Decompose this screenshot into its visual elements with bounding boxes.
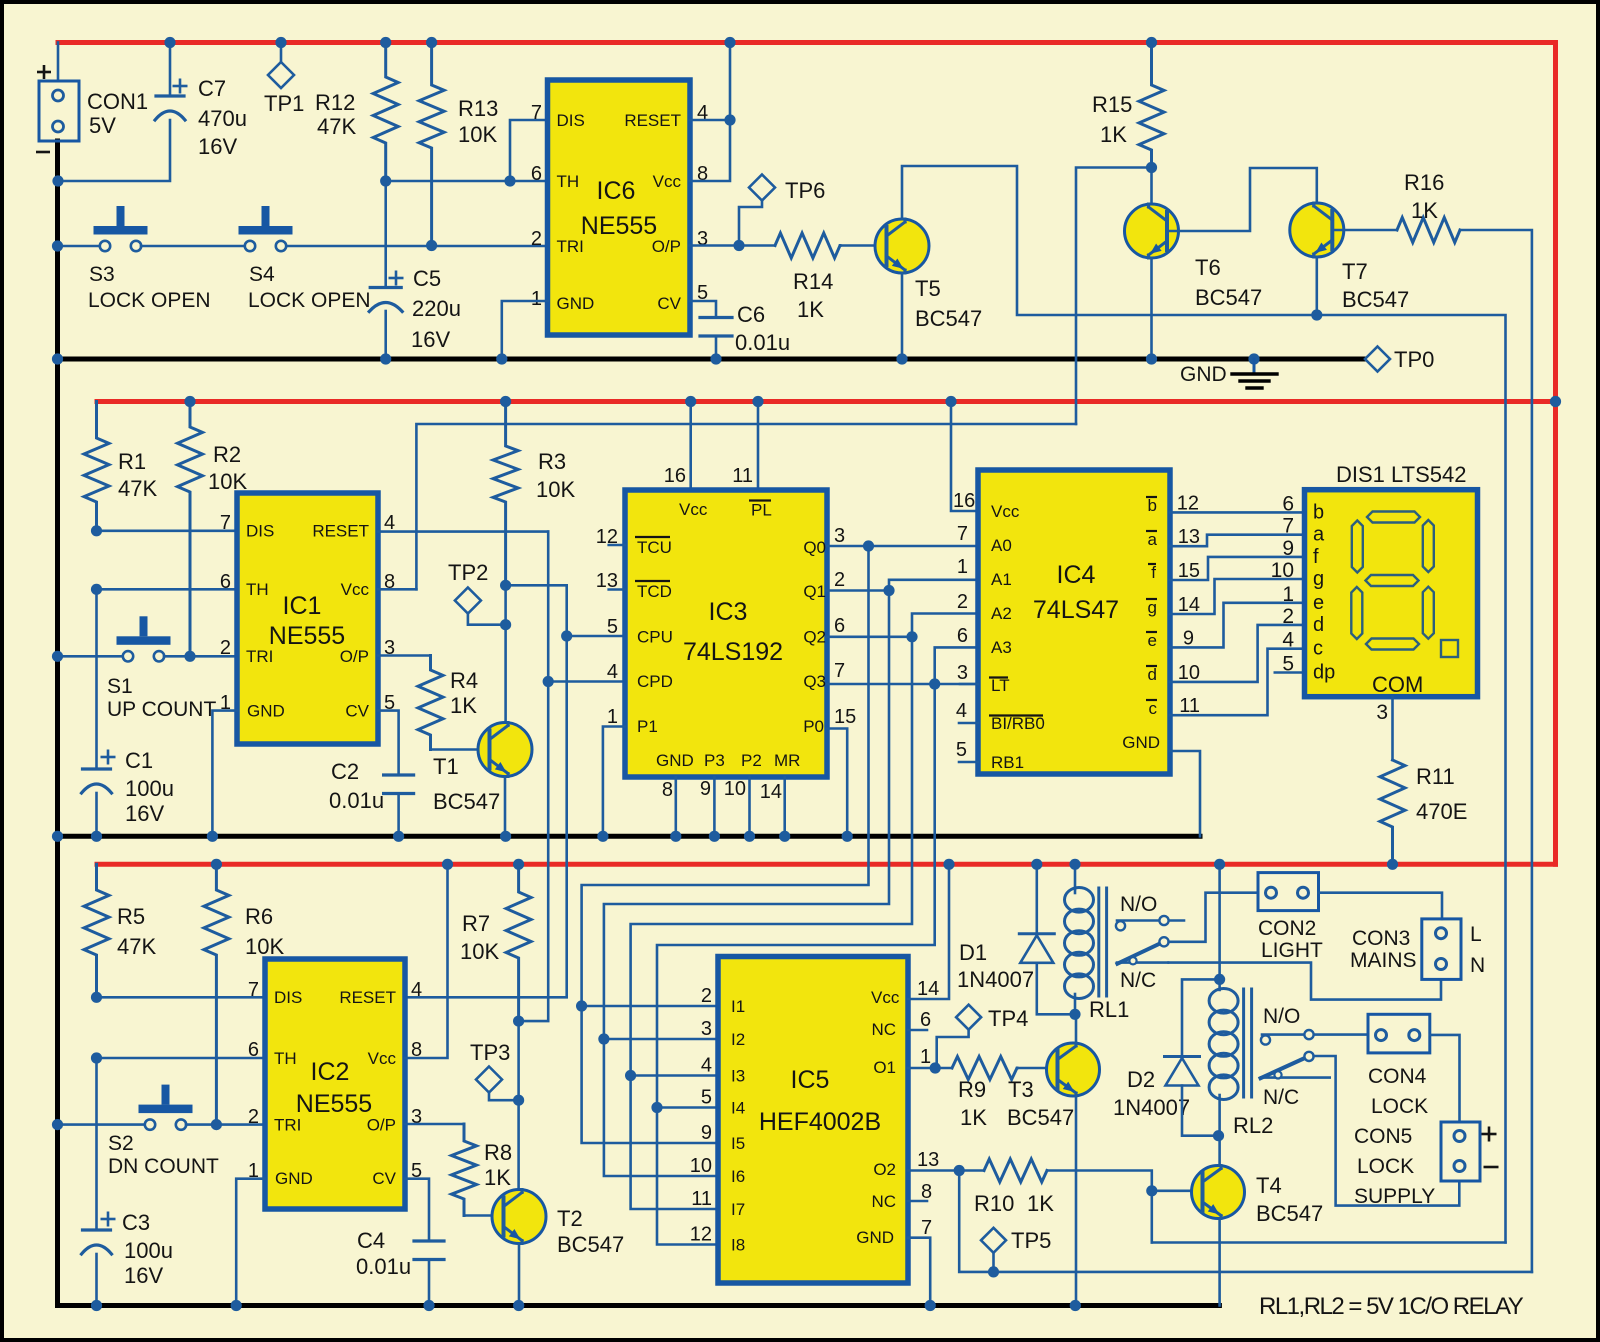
svg-text:P3: P3 (704, 751, 725, 770)
junction TP3 on T2 collector column (513, 1095, 524, 1106)
svg-text:RL2: RL2 (1233, 1113, 1273, 1138)
svg-text:DIS: DIS (246, 522, 274, 541)
resistor R2 10K (178, 402, 203, 657)
svg-text:Vcc: Vcc (871, 988, 900, 1007)
svg-text:3: 3 (834, 525, 845, 547)
svg-text:CON3: CON3 (1352, 927, 1410, 950)
svg-text:1K: 1K (450, 693, 477, 718)
svg-text:5: 5 (607, 616, 618, 638)
wire IC2 Vcc riser to bottom rail (405, 864, 448, 1058)
svg-text:CON2: CON2 (1258, 917, 1316, 940)
svg-text:BC547: BC547 (915, 306, 982, 331)
switch S4 LOCK OPEN (245, 241, 255, 251)
svg-text:1: 1 (1282, 583, 1294, 606)
svg-text:6: 6 (957, 625, 968, 647)
svg-text:9: 9 (700, 778, 711, 800)
svg-text:S4: S4 (249, 263, 275, 286)
svg-text:CPU: CPU (637, 628, 673, 647)
svg-text:T3: T3 (1008, 1077, 1034, 1102)
svg-text:C6: C6 (737, 302, 765, 327)
resistor R10 1K (984, 1159, 1047, 1182)
wire R10 to T4 base column (1047, 1171, 1152, 1243)
relay core RL2 (1242, 989, 1245, 1097)
gate IC5 HEF4002B (718, 957, 908, 1284)
wire IC3 P1 to middle ground bus (603, 727, 625, 837)
svg-text:DIS: DIS (557, 111, 585, 130)
ground bus upper (58, 357, 1367, 362)
wire I4 line (657, 1106, 718, 1109)
wire T3 emitter to bottom bus (1075, 1097, 1078, 1306)
op-amp-block IC6 NE555 (548, 80, 691, 335)
wire D1 cathode to bottom rail (1036, 864, 1039, 934)
diode D1 1N4007 (1019, 932, 1054, 935)
wire R8 to T2 base (464, 1214, 503, 1217)
resistor R7 10K (506, 864, 531, 1021)
svg-text:C1: C1 (125, 748, 153, 773)
svg-text:RL1,RL2 = 5V 1C/O RELAY: RL1,RL2 = 5V 1C/O RELAY (1259, 1293, 1524, 1320)
wire T1 collector column (504, 585, 507, 722)
wire IC5 O1 line (908, 1067, 952, 1070)
svg-text:NE555: NE555 (581, 212, 657, 240)
wire IC4 b to display (1170, 511, 1305, 514)
svg-text:A2: A2 (991, 604, 1012, 623)
wire Q2 line (827, 635, 912, 638)
diode D2 1N4007 (1165, 1055, 1200, 1058)
ground left vertical wire and bottom bus (58, 141, 1220, 1306)
resistor R9 1K (952, 1057, 1017, 1080)
svg-text:LOCK OPEN: LOCK OPEN (88, 289, 211, 312)
wire T7 base to R16 (1332, 229, 1397, 232)
capacitor C6 0.01u (700, 316, 732, 319)
svg-text:7: 7 (1282, 515, 1294, 538)
svg-text:Vcc: Vcc (653, 172, 682, 191)
svg-text:4: 4 (411, 979, 422, 1001)
svg-text:14: 14 (1178, 594, 1200, 616)
wire IC4 d to display (1170, 625, 1305, 682)
svg-text:16V: 16V (124, 1263, 163, 1288)
svg-text:GND: GND (1122, 733, 1160, 752)
svg-text:2: 2 (1282, 605, 1294, 628)
svg-text:R3: R3 (538, 449, 566, 474)
resistor R1 47K (84, 402, 109, 531)
svg-text:e: e (1148, 631, 1157, 650)
svg-text:100u: 100u (125, 776, 174, 801)
resistor R3 10K (493, 402, 518, 586)
decoder IC4 74LS47 (978, 470, 1170, 774)
svg-text:A1: A1 (991, 570, 1012, 589)
svg-text:IC5: IC5 (791, 1066, 830, 1094)
stub IC4 BI/RB0 pin4 (959, 722, 978, 725)
svg-text:7: 7 (248, 979, 259, 1001)
wire IC1 Vcc to +5 line (378, 588, 416, 591)
capacitor C7 (169, 43, 172, 97)
resistor R13 10K (419, 43, 444, 246)
svg-text:1: 1 (607, 706, 618, 728)
svg-text:CV: CV (657, 294, 681, 313)
svg-text:12: 12 (1177, 492, 1199, 514)
junction RESET-Vcc tie (724, 114, 735, 125)
svg-text:1K: 1K (1100, 122, 1127, 147)
wire A3 jog (935, 647, 978, 684)
svg-text:Vcc: Vcc (368, 1049, 397, 1068)
svg-text:TH: TH (246, 580, 269, 599)
wire A2 jog (912, 614, 978, 637)
svg-text:TP0: TP0 (1394, 347, 1434, 372)
junction O1 (930, 1062, 941, 1073)
svg-text:CON1: CON1 (87, 89, 148, 114)
wire CON1 plus to top rail (57, 43, 60, 82)
svg-text:R1: R1 (118, 449, 146, 474)
svg-text:47K: 47K (117, 934, 156, 959)
svg-text:R10: R10 (974, 1191, 1014, 1216)
svg-text:220u: 220u (412, 296, 461, 321)
svg-text:b: b (1313, 501, 1324, 523)
wire IC1 DIS line (97, 529, 238, 532)
stub IC4 RB1 pin5 (959, 761, 978, 764)
svg-text:7: 7 (220, 512, 231, 534)
wire T5 collector up and over (902, 166, 1318, 315)
svg-text:BC547: BC547 (433, 789, 500, 814)
svg-text:10K: 10K (536, 477, 575, 502)
svg-text:2: 2 (834, 569, 845, 591)
switch S2 DN COUNT (145, 1119, 155, 1129)
junction R5 bottom DIS line (91, 992, 102, 1003)
svg-text:BC547: BC547 (1256, 1201, 1323, 1226)
svg-text:2: 2 (531, 228, 542, 250)
svg-text:0.01u: 0.01u (329, 788, 384, 813)
wire Q3 line to LT (827, 683, 978, 686)
wire T1 emitter to middle bus (504, 777, 507, 837)
wire RL1 coil top to bottom rail (1074, 864, 1077, 889)
svg-text:BC547: BC547 (1007, 1105, 1074, 1130)
wire T4 collector (1218, 1136, 1221, 1166)
svg-text:10: 10 (690, 1155, 712, 1177)
wire I2 column to I6 (604, 1039, 718, 1176)
wire lock-open line from ground to S3 (58, 245, 101, 248)
switch S3 LOCK OPEN (100, 241, 110, 251)
svg-text:1: 1 (957, 556, 968, 578)
wire Q1 column down (604, 591, 889, 1040)
wire T6 emitter to ground bus (1150, 258, 1153, 359)
svg-text:3: 3 (957, 662, 968, 684)
svg-text:Q3: Q3 (803, 672, 826, 691)
stub IC3 TCD pin 13 (609, 588, 625, 591)
svg-text:P0: P0 (803, 717, 824, 736)
svg-text:CPD: CPD (637, 672, 673, 691)
svg-text:O1: O1 (873, 1058, 896, 1077)
wire T4 emitter to bottom bus (1218, 1219, 1221, 1306)
wire IC4 GND to middle bus end (1170, 751, 1200, 836)
junction Q1 column (883, 585, 894, 596)
svg-text:RB1: RB1 (991, 753, 1024, 772)
svg-text:47K: 47K (118, 476, 157, 501)
junction Q3 column (929, 678, 940, 689)
svg-text:PL: PL (751, 501, 772, 520)
connector CON3 MAINS (1422, 919, 1461, 980)
svg-text:IC4: IC4 (1057, 561, 1096, 589)
junction middle bus at left ground wire (52, 831, 63, 842)
wire display COM down (1391, 697, 1394, 760)
junction middle rail right corner (1550, 396, 1561, 407)
wire down-count line from ground to S2 (58, 1123, 146, 1126)
wire IC6 O/P line (690, 244, 775, 247)
junction I2 column (598, 1033, 609, 1044)
svg-text:GND: GND (275, 1169, 313, 1188)
junction R12 bottom on TH line (380, 175, 391, 186)
svg-text:1K: 1K (797, 297, 824, 322)
svg-text:c: c (1313, 638, 1323, 660)
wire D1 anode to coil bottom (1037, 963, 1075, 1015)
junction RL1 coil / D1 / T3 (1069, 1009, 1080, 1020)
svg-text:DIS1 LTS542: DIS1 LTS542 (1336, 462, 1466, 487)
svg-text:10K: 10K (458, 122, 497, 147)
svg-text:13: 13 (1178, 526, 1200, 548)
svg-text:CV: CV (372, 1169, 396, 1188)
wire Q2 column down (631, 637, 912, 1076)
svg-text:Vcc: Vcc (679, 500, 708, 519)
test point TP5 (981, 1228, 1006, 1253)
svg-text:74LS47: 74LS47 (1033, 596, 1119, 624)
wire IC4 Vcc riser (951, 402, 978, 512)
ground symbol (1248, 353, 1259, 364)
svg-text:9: 9 (701, 1122, 712, 1144)
svg-text:TCU: TCU (637, 538, 672, 557)
wire RL1 pole to CON2 (1169, 893, 1258, 942)
svg-text:CON4: CON4 (1368, 1065, 1427, 1088)
svg-text:4: 4 (701, 1055, 712, 1077)
test point TP0 (1365, 347, 1390, 372)
svg-text:12: 12 (690, 1224, 712, 1246)
svg-text:6: 6 (248, 1039, 259, 1061)
connector CON5 LOCK SUPPLY (1441, 1122, 1480, 1181)
svg-text:100u: 100u (124, 1238, 173, 1263)
wire CPU column down to IC2 RESET (net A) (405, 636, 567, 997)
svg-text:NE555: NE555 (296, 1090, 372, 1118)
svg-text:TP2: TP2 (448, 560, 488, 585)
svg-text:9: 9 (1183, 627, 1194, 649)
svg-text:NC: NC (871, 1020, 896, 1039)
svg-text:74LS192: 74LS192 (683, 638, 783, 666)
svg-text:BC547: BC547 (1342, 287, 1409, 312)
junction R2 bottom TRI line (184, 651, 195, 662)
junction I4 column (651, 1102, 662, 1113)
junction upper bus at left ground wire (52, 353, 63, 364)
test point TP6 (749, 175, 775, 201)
svg-text:T7: T7 (1342, 259, 1368, 284)
svg-text:SUPPLY: SUPPLY (1354, 1185, 1435, 1208)
counter IC3 74LS192 (625, 490, 827, 777)
wire CPD line to IC3 (548, 680, 625, 683)
wire T4 base (1152, 1190, 1203, 1193)
svg-text:N/C: N/C (1263, 1086, 1299, 1109)
wire R16 to right column down to O2 line (1460, 230, 1532, 1272)
svg-text:R14: R14 (793, 269, 833, 294)
junction DIS-TH tie (504, 175, 515, 186)
svg-text:4: 4 (1282, 629, 1294, 652)
svg-text:T4: T4 (1256, 1173, 1282, 1198)
svg-text:N: N (1470, 954, 1485, 977)
wire Q0 column down (582, 546, 869, 1006)
svg-text:I7: I7 (731, 1200, 745, 1219)
svg-text:C5: C5 (413, 266, 441, 291)
wire IC6 CV to C6 (690, 301, 716, 318)
svg-text:IC2: IC2 (311, 1058, 350, 1086)
svg-text:I1: I1 (731, 997, 745, 1016)
svg-text:GND: GND (856, 1228, 894, 1247)
svg-text:IC1: IC1 (283, 592, 322, 620)
wire R15 node to reset line (1076, 168, 1152, 425)
svg-text:5: 5 (701, 1087, 712, 1109)
wire IC2 O/P to R8 (405, 1123, 464, 1126)
resistor R6 10K (204, 864, 229, 1124)
wire IC4 g to display (1170, 579, 1305, 614)
svg-text:RESET: RESET (339, 988, 396, 1007)
svg-text:I3: I3 (731, 1067, 745, 1086)
junction T4 base (1146, 1185, 1157, 1196)
svg-text:10: 10 (1178, 662, 1200, 684)
capacitor C3 100u (95, 1229, 98, 1232)
svg-text:GND: GND (557, 294, 595, 313)
svg-text:R11: R11 (1416, 764, 1455, 789)
svg-text:6: 6 (220, 571, 231, 593)
relay RL2 armature (1261, 1057, 1307, 1078)
+5V middle rail (97, 399, 1556, 404)
svg-text:10: 10 (1271, 559, 1294, 582)
svg-text:TP1: TP1 (264, 91, 304, 116)
svg-text:TP5: TP5 (1011, 1228, 1051, 1253)
svg-text:TP6: TP6 (785, 178, 825, 203)
wire T6 base from T7 collector (1167, 168, 1317, 231)
junction R1 bottom DIS line (91, 525, 102, 536)
svg-text:11: 11 (1179, 695, 1200, 717)
svg-text:Q0: Q0 (803, 538, 826, 557)
svg-text:470E: 470E (1416, 799, 1467, 824)
stub IC4 LT pin3 (960, 683, 978, 686)
svg-text:g: g (1313, 568, 1324, 590)
svg-text:GND: GND (247, 702, 285, 721)
junction TH at R1 column (91, 584, 102, 595)
+5V bottom rail (97, 862, 1556, 867)
svg-text:2: 2 (220, 637, 231, 659)
junction Q0 column (863, 540, 874, 551)
svg-text:11: 11 (691, 1188, 712, 1210)
junction I1 column (576, 1000, 587, 1011)
svg-text:BC547: BC547 (557, 1232, 624, 1257)
svg-text:LOCK: LOCK (1371, 1095, 1428, 1118)
svg-text:16V: 16V (411, 327, 450, 352)
7-segment digit (1367, 512, 1420, 523)
+5V right vertical rail (1553, 43, 1558, 865)
svg-text:R15: R15 (1092, 92, 1132, 117)
wire IC6 TH line (386, 180, 548, 183)
svg-text:9: 9 (1282, 537, 1294, 560)
connector CON4 LOCK (1368, 1014, 1430, 1053)
junction R7 bottom net B (513, 1016, 524, 1027)
wire IC5 O2 line (908, 1169, 984, 1172)
svg-text:P1: P1 (637, 717, 658, 736)
svg-text:C3: C3 (122, 1210, 150, 1235)
wire CPU line to IC3 (567, 635, 625, 638)
svg-text:10K: 10K (460, 939, 499, 964)
capacitor C1 100u (95, 768, 98, 771)
wire IC4 a to display (1170, 535, 1305, 547)
svg-text:1: 1 (531, 288, 542, 310)
svg-text:MAINS: MAINS (1350, 949, 1417, 972)
switch S1 UP COUNT (123, 651, 133, 661)
wire O2 to TP5 line (959, 1171, 1532, 1272)
wire IC6 DIS jog (510, 120, 548, 181)
wire R9 to T3 base (1017, 1067, 1058, 1070)
wire D2 anode to coil bottom (1182, 1086, 1219, 1136)
svg-text:a: a (1148, 530, 1158, 549)
junction O2 (954, 1165, 965, 1176)
svg-text:S3: S3 (89, 263, 115, 286)
svg-text:N/C: N/C (1120, 969, 1156, 992)
wire lock line to right column (1318, 315, 1506, 1243)
svg-text:LIGHT: LIGHT (1261, 939, 1323, 962)
wire Q0 to A0 (827, 545, 978, 548)
svg-text:O/P: O/P (652, 237, 681, 256)
svg-text:14: 14 (760, 781, 782, 803)
svg-text:6: 6 (920, 1009, 931, 1031)
svg-text:7: 7 (957, 523, 968, 545)
svg-text:NC: NC (871, 1192, 896, 1211)
relay coil RL2 (1209, 989, 1238, 1014)
resistor R12 47K (373, 43, 398, 182)
wire IC6 GND to ground bus (502, 301, 548, 359)
svg-text:10K: 10K (245, 934, 284, 959)
svg-text:3: 3 (1376, 701, 1388, 724)
junction TP2 on T1 collector column (500, 619, 511, 630)
svg-text:2: 2 (701, 985, 712, 1007)
resistor R15 1K (1139, 43, 1164, 168)
svg-text:T6: T6 (1195, 255, 1221, 280)
svg-text:10: 10 (724, 778, 746, 800)
svg-text:TP4: TP4 (988, 1006, 1028, 1031)
svg-text:D2: D2 (1127, 1067, 1155, 1092)
wire IC1 RESET to CPD column (378, 530, 548, 533)
wire IC1 GND to middle bus (212, 711, 237, 837)
svg-text:f: f (1313, 546, 1319, 568)
wire IC3 MR pin 14 to bus (783, 777, 786, 836)
svg-text:O/P: O/P (367, 1116, 396, 1135)
wire IC3 P3 pin 9 to bus (713, 777, 716, 836)
svg-text:MR: MR (774, 751, 800, 770)
capacitor C4 0.01u (414, 1239, 444, 1242)
wire IC4 e to display (1170, 603, 1305, 648)
wire T2 emitter to bottom bus (518, 1244, 521, 1306)
svg-text:TRI: TRI (274, 1116, 301, 1135)
svg-text:R13: R13 (458, 96, 498, 121)
svg-text:C7: C7 (198, 76, 226, 101)
wire T7 emitter to lock line (1316, 257, 1319, 315)
svg-text:4: 4 (956, 700, 967, 722)
svg-text:L: L (1470, 923, 1482, 946)
svg-text:13: 13 (917, 1149, 939, 1171)
wire IC1 O/P to R4 (378, 654, 431, 657)
svg-text:1K: 1K (1027, 1191, 1054, 1216)
wire Q1 line (827, 589, 889, 592)
wire RL2 pole to CON5 minus (1314, 1056, 1460, 1206)
wire C3 to bottom ground bus (95, 1254, 98, 1306)
svg-text:RESET: RESET (312, 522, 369, 541)
junction CPU line (561, 630, 572, 641)
svg-text:1K: 1K (1411, 198, 1438, 223)
wire IC6 RESET pin (690, 119, 730, 122)
svg-text:RL1: RL1 (1089, 997, 1129, 1022)
relay coil RL1 (1065, 888, 1094, 913)
svg-text:Vcc: Vcc (341, 580, 370, 599)
